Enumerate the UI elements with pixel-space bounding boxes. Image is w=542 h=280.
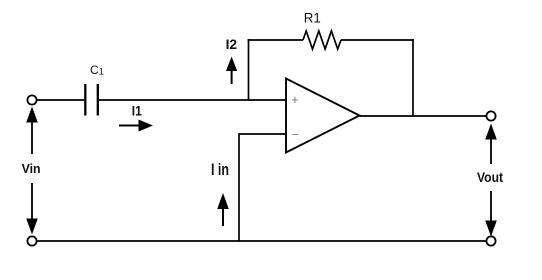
wire feedback right vertical down to output — [412, 39, 414, 116]
wire input terminal to C1 — [37, 99, 84, 101]
node output return terminal (bottom-right) — [486, 236, 495, 245]
Vout down arrow — [485, 191, 497, 237]
wire feedback top left segment — [248, 39, 303, 41]
wire inverting input down to bottom rail — [238, 133, 240, 241]
svg-text:+: + — [291, 93, 298, 107]
wire C1 to op-amp + input — [99, 99, 287, 101]
svg-text:Vout: Vout — [477, 169, 503, 185]
svg-text:−: − — [292, 128, 299, 142]
node input return terminal (bottom-left) — [27, 236, 36, 245]
wire junction to feedback (vertical up) — [248, 39, 250, 100]
wire op-amp output to output terminal — [360, 115, 487, 117]
current arrow I2 — [226, 57, 237, 85]
svg-text:R1: R1 — [304, 10, 321, 26]
wire bottom rail — [37, 240, 487, 242]
current arrow I1 — [119, 120, 153, 132]
wire op-amp inverting input stub — [239, 133, 287, 135]
resistor R1 — [303, 31, 341, 49]
current arrow I in — [217, 193, 229, 226]
op-amp U1 — [286, 79, 360, 153]
capacitor C1 — [85, 84, 98, 116]
Vin up arrow — [26, 107, 38, 155]
node input terminal (top-left) — [27, 95, 36, 104]
Vout up arrow — [485, 124, 497, 165]
wire resistor to feedback corner — [341, 39, 414, 41]
svg-text:I2: I2 — [226, 36, 238, 52]
svg-text:I1: I1 — [132, 103, 142, 119]
Vin down arrow — [26, 183, 38, 235]
node output terminal (top-right) — [486, 111, 495, 120]
svg-text:Vin: Vin — [22, 161, 41, 176]
svg-text:I in: I in — [211, 161, 229, 179]
